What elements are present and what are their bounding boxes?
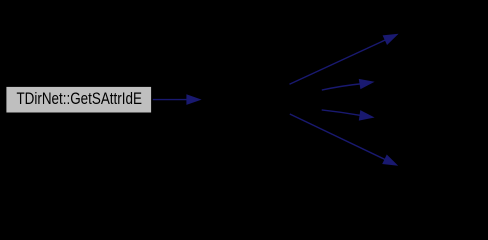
edge 1: wire from node to hidden center node <box>153 94 202 105</box>
edge 5: wire from hidden center to lower-right <box>290 114 398 166</box>
arrowhead 1 <box>186 94 201 105</box>
edge 4: wire from hidden center to mid-lower-right <box>322 110 375 121</box>
edge 3: wire from hidden center to mid-upper-right <box>322 79 375 90</box>
arrowhead 4 <box>359 110 375 120</box>
node TDirNet::GetSAttrIdE <box>6 87 151 113</box>
arrowhead 3 <box>359 79 375 89</box>
edge 2: wire from hidden center to upper-right <box>290 34 399 85</box>
svg-text:TDirNet::GetSAttrIdE: TDirNet::GetSAttrIdE <box>16 89 142 108</box>
arrowhead 2 <box>383 34 399 45</box>
arrowhead 5 <box>382 154 398 165</box>
